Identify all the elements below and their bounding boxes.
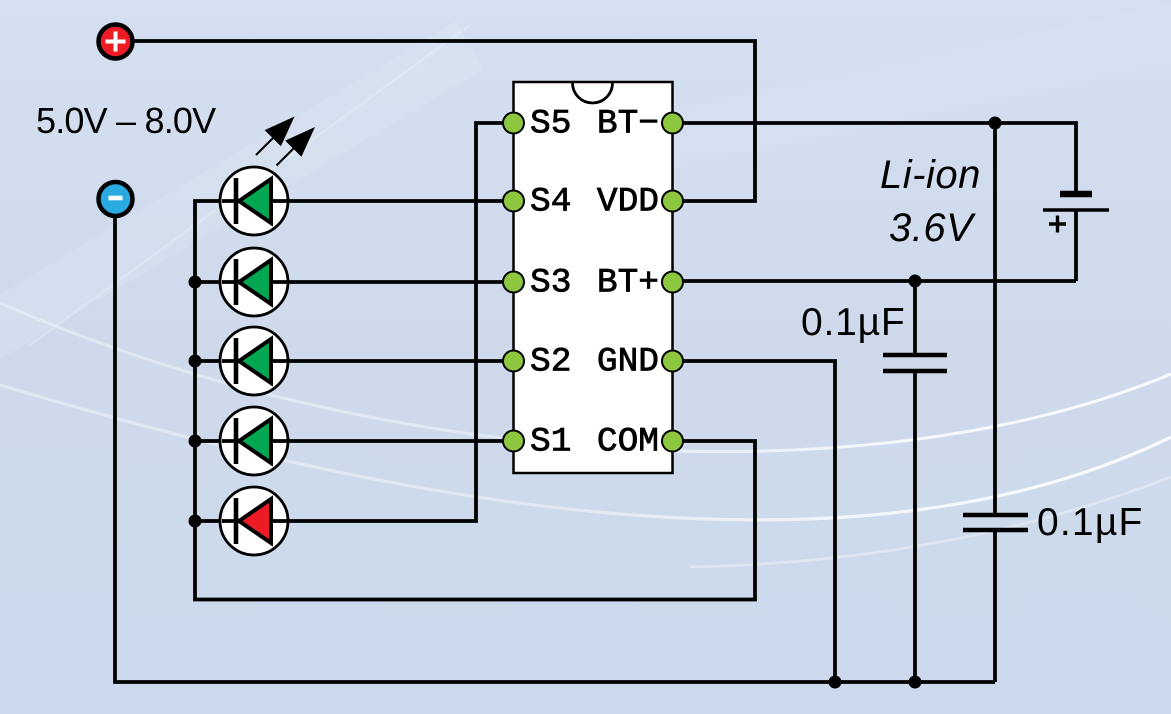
wire LED D2 row to S3 [195, 280, 513, 284]
pin COM [662, 431, 683, 452]
svg-text:VDD: VDD [597, 183, 659, 222]
wire cap C1 bottom lead [913, 372, 917, 682]
junction cathode bus / D5 [189, 515, 202, 528]
wire LED D5 row riser to S5 [195, 123, 513, 521]
svg-text:BT+: BT+ [597, 264, 659, 303]
svg-text:BT−: BT− [597, 105, 659, 144]
junction bottom rail / GND [829, 676, 842, 689]
junction cathode bus / D3 [189, 355, 202, 368]
svg-text:0.1µF: 0.1µF [1037, 501, 1144, 544]
battery BT1 plates [1043, 194, 1109, 233]
svg-text:S4: S4 [530, 183, 571, 222]
svg-text:3.6V: 3.6V [889, 206, 976, 250]
svg-text:GND: GND [597, 343, 659, 382]
svg-text:S5: S5 [530, 105, 571, 144]
LED D1 green [220, 167, 288, 235]
wire node995 down to cap C2 top [993, 123, 997, 513]
svg-text:S3: S3 [530, 264, 571, 303]
pin GND [662, 351, 683, 372]
pin S5 [503, 113, 524, 134]
svg-text:Li-ion: Li-ion [880, 153, 981, 197]
LED emission arrow 1 [256, 117, 295, 156]
wire BT- to battery top [672, 123, 1076, 192]
IC U1 body [514, 82, 673, 473]
wire LED D3 row to S2 [195, 359, 513, 363]
pin S3 [503, 272, 524, 293]
wire BT+ row [672, 279, 1076, 283]
wire LED D4 row to S1 [195, 439, 513, 443]
wire + supply to VDD [134, 41, 755, 201]
LED D2 green [220, 248, 288, 316]
junction BT- node [989, 117, 1002, 130]
pin VDD [662, 191, 683, 212]
LED D5 red [220, 487, 288, 555]
pin S2 [503, 351, 524, 372]
LED D3 green [220, 327, 288, 395]
terminal - [99, 182, 133, 216]
junction BT+ / C1 [909, 275, 922, 288]
svg-text:0.1µF: 0.1µF [801, 301, 906, 344]
capacitor C1 plates [883, 355, 947, 371]
pin BT- [662, 113, 683, 134]
junction cathode bus / D2 [189, 276, 202, 289]
svg-text:S1: S1 [530, 423, 571, 462]
wire cap C1 top lead [913, 281, 917, 353]
pin BT+ [662, 272, 683, 293]
pin S1 [503, 431, 524, 452]
wire cap C2 bottom to bottom rail [993, 532, 997, 682]
wire COM to LED cathode bus [195, 201, 755, 600]
LED emission arrow 2 [277, 127, 316, 166]
wire battery + to BT+ row [1074, 211, 1078, 281]
capacitor C2 plates [963, 515, 1028, 530]
LED D4 green [220, 407, 288, 475]
svg-text:COM: COM [597, 423, 659, 462]
svg-text:5.0V – 8.0V: 5.0V – 8.0V [36, 100, 216, 141]
junction bottom rail / C1 [909, 676, 922, 689]
junction cathode bus / D4 [189, 435, 202, 448]
terminal + [99, 25, 133, 59]
svg-text:S2: S2 [530, 343, 571, 382]
wire LED D1 row to S4 [218, 199, 513, 203]
pin S4 [503, 191, 524, 212]
wire minus terminal to bottom rail [115, 216, 995, 682]
wire GND to bottom rail [672, 361, 835, 682]
